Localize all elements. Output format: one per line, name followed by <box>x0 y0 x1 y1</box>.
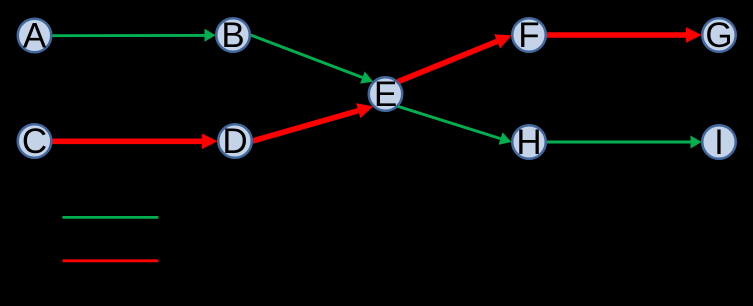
svg-text:H: H <box>516 123 541 162</box>
svg-text:C: C <box>22 122 47 161</box>
node D <box>218 122 252 161</box>
wire E to F (red arrow) <box>398 34 512 81</box>
node E <box>369 75 403 114</box>
wire C to D (red arrow) <box>52 134 218 149</box>
wire D to E (red arrow) <box>253 103 374 141</box>
node A <box>18 17 52 56</box>
node C <box>18 122 52 161</box>
wire F to G (red arrow) <box>547 27 702 42</box>
wire B to E (green arrow) <box>251 35 374 84</box>
svg-text:D: D <box>222 122 247 161</box>
node I <box>702 123 736 162</box>
svg-text:A: A <box>23 17 47 56</box>
node H <box>512 123 546 162</box>
svg-text:E: E <box>374 75 397 114</box>
legend green line <box>63 216 159 219</box>
svg-text:I: I <box>714 123 724 162</box>
legend red line <box>63 259 159 262</box>
node B <box>216 16 250 55</box>
wire H to I (green arrow) <box>547 136 702 149</box>
node F <box>512 16 546 55</box>
wire A to B (green arrow) <box>53 29 216 42</box>
svg-text:F: F <box>518 16 539 55</box>
svg-text:B: B <box>221 16 244 55</box>
svg-text:G: G <box>705 16 732 55</box>
wire E to H (green arrow) <box>398 106 512 144</box>
node G <box>702 16 736 55</box>
